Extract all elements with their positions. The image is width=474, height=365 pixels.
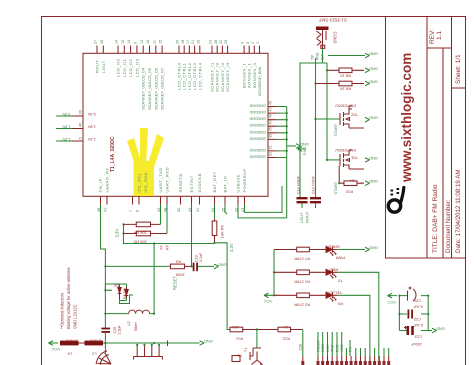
- svg-text:100uF: 100uF: [411, 342, 422, 346]
- svg-text:36: 36: [269, 134, 273, 138]
- junction dot R6 bottom: [213, 242, 215, 244]
- svg-text:C25: C25: [113, 327, 117, 334]
- svg-text:22: 22: [219, 40, 223, 44]
- junction dot R9 rail: [314, 82, 316, 84]
- svg-text:C20: C20: [299, 344, 303, 351]
- wire antenna row: [103, 342, 168, 344]
- svg-text:3,3V: 3,3V: [326, 344, 330, 352]
- svg-text:Date: 17/04/2012 11:08:19 AM: Date: 17/04/2012 11:08:19 AM: [455, 170, 462, 253]
- svg-text:40: 40: [269, 120, 273, 124]
- svg-text:I2C_SDA: I2C_SDA: [143, 172, 148, 192]
- svg-text:START: START: [333, 181, 338, 194]
- svg-text:CON3: CON3: [333, 32, 338, 44]
- svg-text:RX: RX: [166, 244, 170, 250]
- svg-text:11: 11: [152, 40, 156, 44]
- svg-text:R3: R3: [175, 260, 181, 265]
- svg-text:GND: GND: [249, 148, 258, 152]
- capacitor C12 470nF: [297, 175, 308, 208]
- svg-text:RESET: RESET: [317, 339, 321, 352]
- svg-text:C23: C23: [415, 335, 422, 339]
- wire rail to R8: [326, 63, 328, 160]
- svg-text:GND: GND: [369, 156, 378, 161]
- svg-text:START: START: [333, 123, 338, 136]
- svg-text:GND: GND: [257, 123, 266, 127]
- wire and ground flag PWR row: [337, 246, 378, 252]
- svg-text:TXD: TXD: [331, 344, 335, 352]
- resistor R6 10K vertical: [212, 219, 224, 243]
- ground flag left middle: [298, 147, 308, 156]
- svg-text:R11: R11: [235, 337, 243, 342]
- svg-text:41: 41: [103, 208, 107, 212]
- wires UART pins to pullups: [161, 205, 168, 234]
- svg-text:GND: GND: [369, 80, 378, 85]
- wire R6 junction to R11: [215, 205, 231, 330]
- svg-text:L2: L2: [127, 321, 131, 325]
- svg-text:LCD_D1: LCD_D1: [122, 58, 127, 77]
- transistor T01 DMP2305U: [326, 148, 364, 183]
- resistor R10 1K: [338, 179, 364, 195]
- ground flag T01: [365, 156, 378, 162]
- FM_IP antenna wire down: [101, 205, 106, 328]
- header CON2 net labels: [317, 339, 353, 352]
- LED D-RX yellow: [325, 290, 343, 306]
- svg-text:GND: GND: [257, 110, 266, 114]
- svg-text:8: 8: [135, 210, 139, 212]
- header CON2 pins: [303, 356, 389, 362]
- svg-text:C19: C19: [195, 255, 199, 262]
- svg-text:GND: GND: [204, 339, 213, 344]
- transistor T1: [244, 330, 263, 365]
- svg-text:3: 3: [246, 42, 250, 44]
- svg-text:29: 29: [224, 40, 228, 44]
- svg-text:R7 270R: R7 270R: [294, 257, 310, 262]
- svg-text:EXTINT: EXTINT: [189, 175, 194, 192]
- svg-text:1,8V: 1,8V: [62, 125, 71, 130]
- svg-text:21: 21: [191, 40, 195, 44]
- resistor R12 1K: [257, 325, 303, 342]
- svg-text:GND: GND: [321, 344, 325, 352]
- junction dot R8 rail: [326, 69, 328, 71]
- capacitor C13 470nF: [310, 175, 321, 208]
- ground flag at jack: [365, 52, 378, 58]
- svg-text:GND: GND: [257, 104, 266, 108]
- transistor T02 DMP2305U: [314, 104, 364, 129]
- svg-text:R9 1K: R9 1K: [340, 87, 351, 92]
- svg-text:23: 23: [209, 40, 213, 44]
- IC U1 left pin stubs: [72, 116, 83, 141]
- svg-text:T01: T01: [350, 156, 358, 161]
- svg-text:26: 26: [100, 40, 104, 44]
- svg-text:GND: GND: [249, 136, 258, 140]
- wire RESETB pin down to C19: [191, 205, 193, 267]
- VCC flag LED rail: [263, 293, 274, 304]
- ground flag right of IC: [296, 142, 309, 148]
- svg-text:46: 46: [78, 122, 83, 127]
- svg-text:1,2V: 1,2V: [62, 137, 71, 142]
- IC U1 top pin names inside: [95, 58, 263, 110]
- svg-text:GND: GND: [249, 110, 258, 114]
- svg-text:7: 7: [129, 210, 133, 212]
- svg-text:RNG: RNG: [316, 52, 320, 60]
- svg-text:C13 470nF: C13 470nF: [312, 175, 316, 194]
- svg-text:GND: GND: [249, 130, 258, 134]
- wire L2 bias rail vertical: [153, 244, 155, 314]
- svg-text:R10: R10: [345, 189, 353, 194]
- LED circuit left rail: [273, 250, 275, 296]
- ground flag T02: [365, 116, 378, 122]
- svg-text:Sheet: 1/1: Sheet: 1/1: [455, 54, 462, 84]
- IC U1 right pin stubs: [268, 107, 277, 158]
- IC U1 bottom pin numbers: [97, 208, 245, 212]
- wire TX row to down rail: [337, 272, 379, 365]
- svg-text:10: 10: [121, 40, 125, 44]
- svg-text:46: 46: [269, 114, 273, 118]
- svg-text:TITLE: DAB+ FM Radio: TITLE: DAB+ FM Radio: [432, 184, 439, 253]
- svg-text:GND: GND: [369, 52, 378, 57]
- svg-text:C21: C21: [414, 299, 421, 303]
- svg-text:R2 270R: R2 270R: [294, 302, 310, 307]
- antenna shield comb CON1: [134, 341, 168, 360]
- svg-text:19: 19: [196, 40, 200, 44]
- svg-text:13: 13: [127, 40, 131, 44]
- svg-text:2: 2: [251, 42, 255, 44]
- header CON2 net wires: [318, 332, 350, 356]
- svg-text:10K R6: 10K R6: [220, 224, 225, 238]
- svg-text:LOUT: LOUT: [299, 212, 304, 223]
- svg-text:SMD L2012C: SMD L2012C: [73, 304, 78, 329]
- wire L4 to L3: [79, 342, 85, 344]
- svg-text:270nH: 270nH: [66, 339, 77, 343]
- svg-text:LBAND_RF: LBAND_RF: [104, 168, 109, 193]
- svg-text:VCC: VCC: [51, 347, 60, 352]
- capacitor C25 1,5pF: [101, 325, 121, 343]
- svg-text:GND: GND: [257, 130, 266, 134]
- svg-text:DMP2305U: DMP2305U: [335, 104, 356, 109]
- resistor R9 1K: [316, 81, 365, 92]
- svg-text:35: 35: [269, 127, 273, 131]
- svg-text:GND: GND: [249, 104, 258, 108]
- ground flag C19: [214, 262, 227, 268]
- svg-text:T1_L4A_0200C: T1_L4A_0200C: [110, 136, 116, 172]
- LED row RX: resistor R2 270R: [274, 293, 326, 307]
- headphone jack CON3 SJ-3523-SMT: [311, 18, 348, 61]
- resistor R5 10K: [124, 231, 168, 244]
- svg-text:FM_IP: FM_IP: [98, 178, 103, 192]
- capacitor C22 0,1uF: [408, 310, 424, 328]
- antenna ANT1: [96, 343, 111, 365]
- wire R6 top to pin 24: [214, 205, 216, 220]
- svg-text:31: 31: [196, 208, 200, 212]
- svg-text:RX: RX: [337, 301, 343, 306]
- svg-text:SCANKEY_00/LCD_D4: SCANKEY_00/LCD_D4: [141, 67, 146, 110]
- svg-text:9: 9: [134, 42, 138, 44]
- svg-text:GND: GND: [369, 246, 378, 251]
- svg-text:TX: TX: [160, 245, 164, 250]
- wire jack center contact down and left: [300, 49, 327, 196]
- svg-text:4: 4: [241, 42, 245, 44]
- svg-text:SJ-3523-SMT: SJ-3523-SMT: [318, 18, 347, 23]
- junction R11 R12: [256, 328, 258, 330]
- svg-text:GND: GND: [257, 117, 266, 121]
- svg-text:52: 52: [269, 152, 273, 156]
- svg-text:0,1uF: 0,1uF: [413, 323, 423, 327]
- title block outline: [386, 17, 466, 259]
- IC U1 right pin numbers: [269, 101, 273, 156]
- svg-text:ROUT: ROUT: [305, 211, 310, 223]
- capacitor C21 4,7uF polarized: [408, 287, 424, 309]
- wire 3,3V rail at pullups: [124, 224, 215, 243]
- svg-text:T02: T02: [350, 113, 358, 118]
- inductor L4 270nH: [60, 339, 79, 356]
- svg-text:12: 12: [140, 40, 144, 44]
- svg-text:1,5pF: 1,5pF: [118, 325, 122, 335]
- svg-text:VCC: VCC: [340, 344, 344, 352]
- svg-text:20: 20: [176, 40, 180, 44]
- svg-text:RESETB: RESETB: [178, 173, 183, 192]
- svg-text:1K: 1K: [350, 179, 355, 184]
- svg-text:10K R5: 10K R5: [133, 240, 147, 245]
- VCC flag bottom left: [49, 341, 61, 352]
- svg-text:1,8V: 1,8V: [87, 125, 96, 130]
- svg-text:R1 270R: R1 270R: [294, 279, 310, 284]
- svg-text:17: 17: [186, 40, 190, 44]
- svg-text:K1: K1: [237, 354, 241, 358]
- svg-text:1: 1: [256, 42, 260, 44]
- svg-text:18: 18: [181, 40, 185, 44]
- svg-text:GND: GND: [249, 155, 258, 159]
- svg-text:1.1: 1.1: [436, 31, 443, 40]
- IC U1 top pin stubs: [97, 46, 260, 54]
- svg-text:GND: GND: [436, 327, 445, 332]
- svg-text:32: 32: [177, 208, 181, 212]
- svg-text:POWERUP: POWERUP: [242, 168, 247, 192]
- inductor L3 270nH: [85, 339, 104, 356]
- svg-text:4,7uF: 4,7uF: [413, 305, 423, 309]
- svg-text:LOUT: LOUT: [101, 60, 106, 73]
- svg-text:I2C_SCL: I2C_SCL: [137, 172, 142, 192]
- resistor R4 10K: [124, 222, 161, 235]
- svg-text:GND: GND: [369, 179, 378, 184]
- IC U1 bottom pin stubs: [101, 196, 245, 204]
- header extra pin stubs: [346, 348, 388, 356]
- svg-text:GND: GND: [257, 136, 266, 140]
- svg-text:56nH: 56nH: [134, 322, 138, 331]
- svg-text:3,3V: 3,3V: [62, 112, 71, 117]
- svg-text:RESET: RESET: [173, 276, 178, 290]
- decoupling rails: [399, 296, 432, 331]
- ground flag R8: [365, 66, 378, 72]
- svg-text:R8 1K: R8 1K: [340, 74, 351, 79]
- svg-text:L3: L3: [92, 352, 96, 356]
- svg-text:AONSEND_B/I0: AONSEND_B/I0: [257, 66, 262, 96]
- IC U1 T1_L4A_0200C body: [83, 53, 268, 196]
- junction dots on ground rail: [286, 112, 288, 152]
- svg-text:SCANKEY_01/LCD_D5: SCANKEY_01/LCD_D5: [147, 67, 152, 110]
- svg-text:LCD_D2: LCD_D2: [128, 58, 133, 77]
- LED row TX: resistor R1 270R: [274, 270, 326, 284]
- VCC flag decoupling group: [387, 293, 397, 305]
- wire jack left contact down to audio rail: [315, 58, 317, 195]
- LED row PWR: resistor R7 270R: [274, 247, 326, 261]
- IC U1 right pin GND names inside: [249, 104, 266, 159]
- wire R12 to header column: [302, 330, 304, 357]
- svg-text:VCC: VCC: [263, 299, 272, 304]
- svg-text:3,3V: 3,3V: [87, 112, 96, 117]
- wire reset row: [105, 265, 170, 267]
- svg-text:www.sixthlogic.com: www.sixthlogic.com: [399, 53, 414, 183]
- wire right pins to ground rail: [277, 107, 296, 158]
- svg-text:GND: GND: [369, 66, 378, 71]
- yellow highlighter mark over I2C pins: [127, 128, 164, 196]
- sixthlogic logo: [388, 188, 404, 213]
- svg-text:28: 28: [214, 40, 218, 44]
- ground flag decoupling: [432, 327, 445, 333]
- svg-text:RX: RX: [349, 346, 353, 352]
- capacitor C23 100uF polarized: [404, 326, 422, 346]
- svg-text:27: 27: [94, 40, 98, 44]
- svg-text:D2DCNB: D2DCNB: [197, 173, 202, 192]
- inductor L2 56nH: [105, 310, 155, 331]
- svg-text:GND: GND: [257, 148, 266, 152]
- svg-text:BAT_DET: BAT_DET: [212, 171, 217, 192]
- svg-text:R12: R12: [282, 337, 290, 342]
- svg-text:GND: GND: [249, 117, 258, 121]
- svg-text:LCD_D0: LCD_D0: [116, 58, 121, 77]
- svg-text:Document Number:: Document Number:: [445, 199, 452, 253]
- svg-text:RXD: RXD: [336, 344, 340, 352]
- IC U1 top pin numbers: [94, 40, 261, 44]
- LED D-TX red: [326, 267, 343, 283]
- IC U1 bottom pin names inside: [98, 167, 247, 193]
- svg-text:SCANKEY_03/LCD_D7: SCANKEY_03/LCD_D7: [160, 67, 165, 110]
- resistor R3 100K: [171, 260, 193, 278]
- svg-text:REV:: REV:: [429, 29, 436, 44]
- svg-text:30: 30: [78, 109, 83, 114]
- svg-text:51: 51: [269, 145, 273, 149]
- svg-text:UART_RXD: UART_RXD: [164, 167, 169, 193]
- svg-text:45: 45: [269, 101, 273, 105]
- ground flag antenna row: [200, 339, 214, 345]
- wire comb to ground flag: [168, 342, 200, 344]
- svg-text:UART_TXD: UART_TXD: [158, 167, 163, 192]
- svg-text:GND: GND: [218, 262, 227, 267]
- svg-text:15: 15: [159, 40, 163, 44]
- svg-text:SCANKEY_I3: SCANKEY_I3: [225, 62, 230, 92]
- svg-text:C22: C22: [414, 317, 421, 321]
- ground flag R9: [365, 80, 378, 86]
- svg-text:VCC: VCC: [387, 300, 396, 305]
- note text optional inductors: [60, 267, 78, 329]
- svg-text:3,3V: 3,3V: [115, 229, 120, 238]
- svg-text:LCD_D3: LCD_D3: [134, 58, 139, 77]
- svg-text:ROUT: ROUT: [95, 60, 100, 73]
- wire RX row to down rail: [337, 295, 370, 365]
- svg-text:GND: GND: [369, 116, 378, 121]
- svg-text:GND: GND: [300, 142, 309, 147]
- svg-text:0,1uF: 0,1uF: [199, 252, 203, 262]
- svg-text:43: 43: [269, 107, 273, 111]
- resistor R8 1K: [327, 68, 364, 79]
- svg-text:TIP: TIP: [311, 54, 315, 60]
- resistor R11 10K: [230, 325, 257, 342]
- small part near T1: [232, 354, 242, 362]
- svg-text:SCANKEY_02/LCD_D6: SCANKEY_02/LCD_D6: [153, 67, 158, 110]
- svg-text:LCD_CTRL4: LCD_CTRL4: [197, 62, 202, 90]
- svg-text:C12 470nF: C12 470nF: [297, 175, 301, 194]
- wires from pins 22 23 down and right: [238, 158, 287, 218]
- svg-text:GND: GND: [257, 155, 266, 159]
- svg-text:PWR: PWR: [336, 256, 345, 261]
- svg-text:GND: GND: [302, 147, 307, 156]
- svg-text:BAT_IN: BAT_IN: [222, 176, 227, 193]
- capacitor C19 0,1uF: [193, 252, 214, 271]
- svg-text:T1: T1: [244, 348, 248, 352]
- diode D2 BAV99: [105, 284, 133, 304]
- ground flag R10: [365, 179, 378, 185]
- svg-text:GND: GND: [249, 123, 258, 127]
- svg-text:**Optional inductors: **Optional inductors: [60, 293, 65, 329]
- wire jack sleeve to ground flag: [328, 55, 365, 57]
- svg-text:L4: L4: [68, 352, 72, 356]
- LED D-PWR green: [326, 245, 345, 261]
- svg-text:Biasing voltage for active ant: Biasing voltage for active antenna: [66, 267, 71, 329]
- svg-text:14: 14: [115, 40, 119, 44]
- IC U1 left net stubs and labels 3,3V 1,8V 1,2V: [56, 109, 96, 142]
- svg-text:DMP2305U: DMP2305U: [335, 148, 356, 153]
- svg-text:USB32K: USB32K: [235, 174, 240, 192]
- svg-text:16: 16: [146, 40, 150, 44]
- svg-text:1,2V: 1,2V: [87, 137, 96, 142]
- svg-text:1K: 1K: [283, 325, 288, 330]
- svg-text:10K: 10K: [232, 325, 239, 330]
- svg-text:270nH: 270nH: [90, 339, 101, 343]
- svg-text:TX: TX: [338, 278, 343, 283]
- svg-text:3,3V: 3,3V: [229, 243, 234, 252]
